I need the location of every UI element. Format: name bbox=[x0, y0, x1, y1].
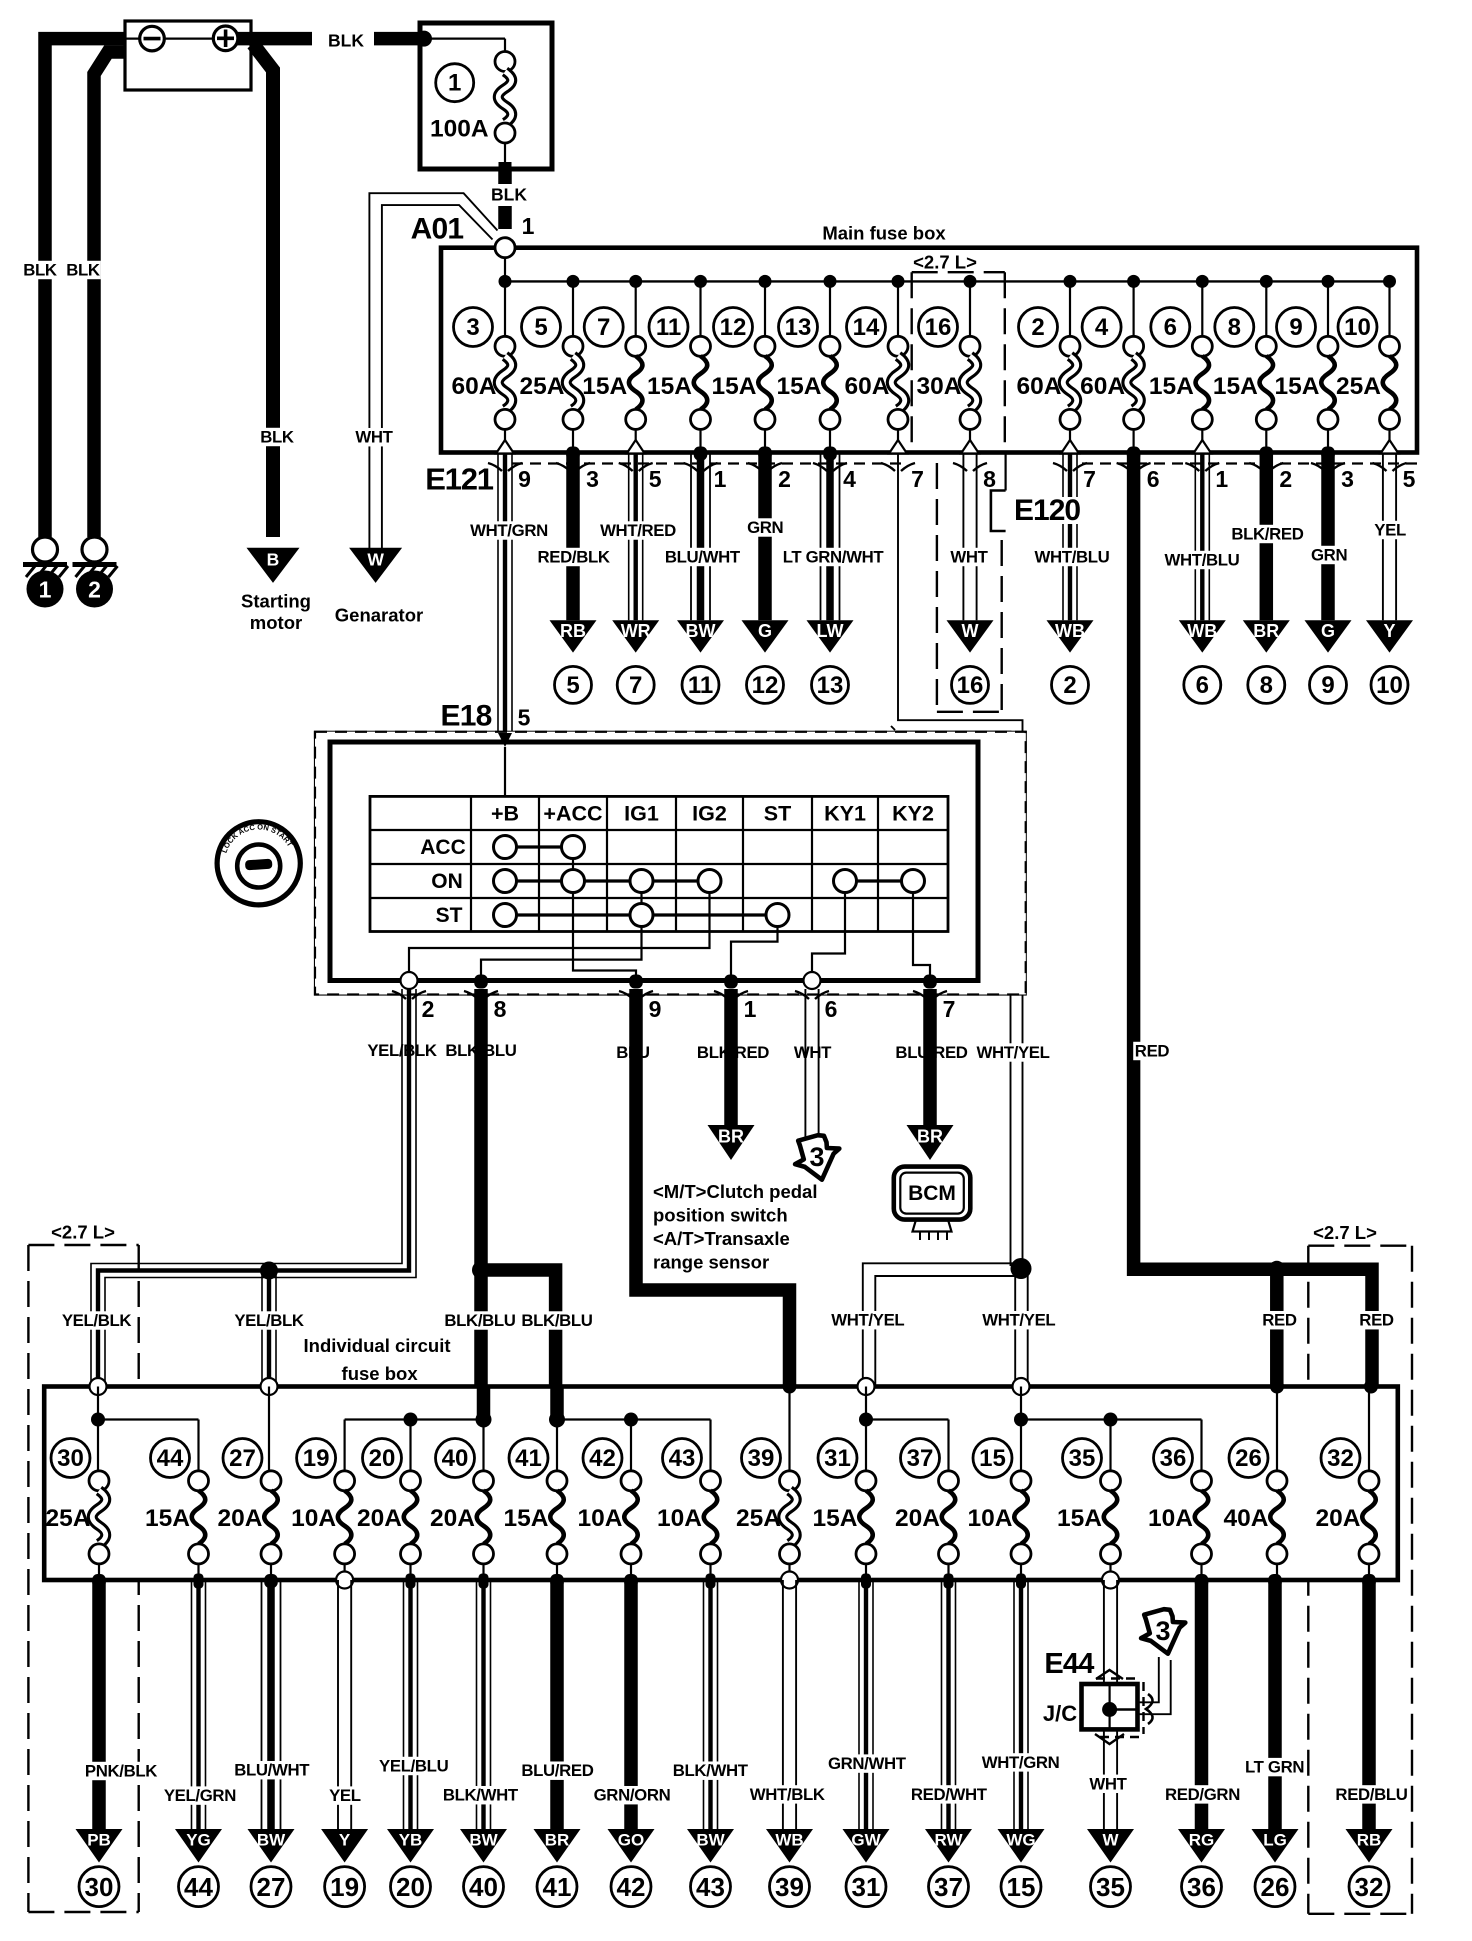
svg-text:E18: E18 bbox=[441, 700, 492, 733]
svg-text:9: 9 bbox=[1321, 672, 1334, 699]
svg-text:41: 41 bbox=[515, 1445, 542, 1472]
svg-text:BR: BR bbox=[1253, 621, 1279, 641]
svg-text:41: 41 bbox=[543, 1872, 572, 1902]
svg-text:BLK/RED: BLK/RED bbox=[1231, 525, 1303, 544]
svg-text:60A: 60A bbox=[452, 373, 497, 400]
svg-text:WHT/BLU: WHT/BLU bbox=[1035, 548, 1110, 567]
svg-text:7: 7 bbox=[911, 466, 924, 492]
svg-text:Individual circuit: Individual circuit bbox=[304, 1335, 451, 1356]
svg-text:15A: 15A bbox=[1275, 373, 1320, 400]
svg-text:Genarator: Genarator bbox=[335, 605, 423, 626]
svg-text:BLK/BLU: BLK/BLU bbox=[521, 1311, 592, 1330]
svg-text:ST: ST bbox=[436, 904, 463, 927]
svg-text:10A: 10A bbox=[578, 1505, 623, 1532]
svg-text:BLK: BLK bbox=[260, 428, 294, 447]
svg-text:G: G bbox=[1321, 621, 1335, 641]
svg-text:26: 26 bbox=[1261, 1872, 1290, 1902]
svg-text:3: 3 bbox=[1155, 1616, 1170, 1646]
svg-text:GRN: GRN bbox=[747, 518, 783, 537]
svg-text:8: 8 bbox=[494, 996, 507, 1022]
svg-text:20A: 20A bbox=[895, 1505, 940, 1532]
svg-text:15A: 15A bbox=[777, 373, 822, 400]
svg-text:15A: 15A bbox=[813, 1505, 858, 1532]
svg-text:2: 2 bbox=[422, 996, 435, 1022]
svg-text:8: 8 bbox=[1228, 314, 1241, 341]
svg-text:25A: 25A bbox=[1336, 373, 1381, 400]
svg-text:25A: 25A bbox=[520, 373, 565, 400]
svg-text:WHT/YEL: WHT/YEL bbox=[976, 1043, 1049, 1062]
svg-text:25A: 25A bbox=[46, 1505, 91, 1532]
svg-text:RED/GRN: RED/GRN bbox=[1165, 1785, 1240, 1804]
svg-text:44: 44 bbox=[184, 1872, 213, 1902]
svg-text:39: 39 bbox=[748, 1445, 775, 1472]
svg-text:8: 8 bbox=[1260, 672, 1273, 699]
svg-text:31: 31 bbox=[824, 1445, 851, 1472]
svg-text:60A: 60A bbox=[845, 373, 890, 400]
svg-text:KY2: KY2 bbox=[892, 802, 934, 826]
svg-text:19: 19 bbox=[330, 1872, 359, 1902]
svg-text:LT GRN/WHT: LT GRN/WHT bbox=[783, 548, 885, 567]
svg-text:<2.7 L>: <2.7 L> bbox=[51, 1222, 115, 1243]
svg-text:2: 2 bbox=[1279, 466, 1292, 492]
svg-text:LG: LG bbox=[1263, 1831, 1287, 1850]
svg-text:BLU/WHT: BLU/WHT bbox=[665, 548, 741, 567]
svg-text:2: 2 bbox=[1063, 672, 1076, 699]
svg-text:6: 6 bbox=[1147, 466, 1160, 492]
svg-text:PNK/BLK: PNK/BLK bbox=[85, 1762, 157, 1781]
svg-text:11: 11 bbox=[688, 672, 713, 699]
svg-text:7: 7 bbox=[1083, 466, 1096, 492]
svg-text:ST: ST bbox=[764, 802, 791, 826]
svg-text:36: 36 bbox=[1187, 1872, 1216, 1902]
svg-text:3: 3 bbox=[1341, 466, 1354, 492]
svg-text:WHT/RED: WHT/RED bbox=[600, 521, 676, 540]
svg-text:10: 10 bbox=[1376, 672, 1403, 699]
svg-text:B: B bbox=[267, 549, 280, 569]
svg-text:G: G bbox=[758, 621, 772, 641]
svg-text:5: 5 bbox=[566, 672, 579, 699]
svg-text:1: 1 bbox=[714, 466, 727, 492]
svg-text:2: 2 bbox=[778, 466, 791, 492]
svg-text:BR: BR bbox=[718, 1127, 744, 1147]
svg-text:43: 43 bbox=[669, 1445, 696, 1472]
svg-text:WB: WB bbox=[1055, 621, 1085, 641]
svg-text:10A: 10A bbox=[1148, 1505, 1193, 1532]
svg-text:BLK: BLK bbox=[23, 261, 57, 280]
svg-text:15A: 15A bbox=[145, 1505, 190, 1532]
svg-text:32: 32 bbox=[1355, 1872, 1384, 1902]
svg-text:WHT: WHT bbox=[794, 1043, 832, 1062]
svg-text:GRN: GRN bbox=[1311, 546, 1347, 565]
svg-text:2: 2 bbox=[1031, 314, 1044, 341]
svg-text:WHT: WHT bbox=[355, 428, 393, 447]
svg-text:J/C: J/C bbox=[1043, 1701, 1077, 1726]
svg-text:BLK/WHT: BLK/WHT bbox=[443, 1786, 519, 1805]
svg-text:RG: RG bbox=[1189, 1831, 1215, 1850]
svg-text:WB: WB bbox=[1187, 621, 1217, 641]
svg-text:YEL: YEL bbox=[1374, 521, 1406, 540]
svg-text:40: 40 bbox=[469, 1872, 498, 1902]
svg-text:40: 40 bbox=[442, 1445, 469, 1472]
svg-text:19: 19 bbox=[303, 1445, 330, 1472]
svg-text:YB: YB bbox=[399, 1831, 423, 1850]
svg-text:+B: +B bbox=[491, 802, 519, 826]
svg-text:RED/BLK: RED/BLK bbox=[538, 548, 610, 567]
svg-text:43: 43 bbox=[696, 1872, 725, 1902]
svg-text:GRN/ORN: GRN/ORN bbox=[594, 1786, 671, 1805]
svg-text:15A: 15A bbox=[1149, 373, 1194, 400]
svg-text:15A: 15A bbox=[647, 373, 692, 400]
svg-text:30: 30 bbox=[57, 1445, 84, 1472]
svg-text:5: 5 bbox=[649, 466, 662, 492]
svg-text:1: 1 bbox=[448, 70, 461, 97]
svg-text:5: 5 bbox=[1403, 466, 1416, 492]
svg-text:6: 6 bbox=[825, 996, 838, 1022]
svg-text:+ACC: +ACC bbox=[543, 802, 602, 826]
svg-text:36: 36 bbox=[1160, 1445, 1187, 1472]
svg-text:10A: 10A bbox=[657, 1505, 702, 1532]
svg-text:1: 1 bbox=[1215, 466, 1228, 492]
svg-text:15: 15 bbox=[1007, 1872, 1036, 1902]
svg-text:32: 32 bbox=[1327, 1445, 1354, 1472]
svg-text:4: 4 bbox=[843, 466, 856, 492]
svg-text:16: 16 bbox=[925, 314, 952, 341]
svg-text:42: 42 bbox=[617, 1872, 646, 1902]
svg-text:range sensor: range sensor bbox=[653, 1251, 769, 1272]
svg-text:35: 35 bbox=[1069, 1445, 1096, 1472]
svg-text:LW: LW bbox=[817, 621, 844, 641]
svg-text:A01: A01 bbox=[411, 213, 464, 246]
svg-text:LT GRN: LT GRN bbox=[1245, 1758, 1304, 1777]
svg-text:13: 13 bbox=[785, 314, 812, 341]
svg-text:39: 39 bbox=[775, 1872, 804, 1902]
svg-text:8: 8 bbox=[983, 466, 996, 492]
svg-text:16: 16 bbox=[957, 672, 984, 699]
svg-text:RED/WHT: RED/WHT bbox=[911, 1785, 988, 1804]
svg-text:Y: Y bbox=[339, 1831, 351, 1850]
svg-text:7: 7 bbox=[597, 314, 610, 341]
svg-text:5: 5 bbox=[518, 705, 531, 731]
svg-text:100A: 100A bbox=[430, 116, 489, 143]
svg-text:15A: 15A bbox=[1213, 373, 1258, 400]
svg-text:WHT/GRN: WHT/GRN bbox=[982, 1753, 1060, 1772]
svg-text:3: 3 bbox=[809, 1142, 824, 1172]
svg-text:20: 20 bbox=[369, 1445, 396, 1472]
svg-text:<2.7 L>: <2.7 L> bbox=[1313, 1222, 1377, 1243]
svg-text:20A: 20A bbox=[1316, 1505, 1361, 1532]
svg-text:GO: GO bbox=[618, 1831, 644, 1850]
svg-text:YEL/GRN: YEL/GRN bbox=[164, 1786, 236, 1805]
svg-text:27: 27 bbox=[257, 1872, 286, 1902]
svg-text:15A: 15A bbox=[504, 1505, 549, 1532]
svg-text:IG1: IG1 bbox=[624, 802, 659, 826]
svg-text:PB: PB bbox=[87, 1831, 111, 1850]
svg-text:ACC: ACC bbox=[420, 836, 466, 859]
svg-text:BLU/WHT: BLU/WHT bbox=[234, 1761, 310, 1780]
svg-text:<2.7 L>: <2.7 L> bbox=[913, 252, 977, 273]
svg-text:RED: RED bbox=[1262, 1311, 1297, 1330]
svg-text:10A: 10A bbox=[291, 1505, 336, 1532]
svg-text:BW: BW bbox=[686, 621, 716, 641]
svg-text:WB: WB bbox=[775, 1831, 803, 1850]
svg-text:7: 7 bbox=[629, 672, 642, 699]
svg-text:20A: 20A bbox=[430, 1505, 475, 1532]
svg-text:YEL/BLK: YEL/BLK bbox=[234, 1311, 304, 1330]
svg-text:W: W bbox=[962, 621, 979, 641]
svg-text:15A: 15A bbox=[712, 373, 757, 400]
svg-text:10A: 10A bbox=[968, 1505, 1013, 1532]
svg-text:1: 1 bbox=[744, 996, 757, 1022]
svg-text:44: 44 bbox=[157, 1445, 184, 1472]
svg-text:RW: RW bbox=[934, 1831, 963, 1850]
svg-text:Starting: Starting bbox=[241, 591, 311, 612]
svg-text:YEL: YEL bbox=[329, 1786, 361, 1805]
svg-text:BR: BR bbox=[545, 1831, 570, 1850]
svg-text:9: 9 bbox=[518, 466, 531, 492]
svg-text:WHT/YEL: WHT/YEL bbox=[982, 1311, 1055, 1330]
svg-text:YEL/BLK: YEL/BLK bbox=[62, 1311, 132, 1330]
svg-text:E120: E120 bbox=[1014, 494, 1080, 527]
svg-text:15: 15 bbox=[979, 1445, 1006, 1472]
svg-text:5: 5 bbox=[534, 314, 547, 341]
svg-text:RED: RED bbox=[1359, 1311, 1394, 1330]
svg-text:WHT/BLK: WHT/BLK bbox=[750, 1785, 825, 1804]
svg-text:20A: 20A bbox=[357, 1505, 402, 1532]
svg-text:42: 42 bbox=[589, 1445, 616, 1472]
svg-text:WG: WG bbox=[1006, 1831, 1035, 1850]
svg-text:3: 3 bbox=[466, 314, 479, 341]
svg-text:YEL/BLU: YEL/BLU bbox=[379, 1757, 449, 1776]
svg-text:WHT/GRN: WHT/GRN bbox=[470, 521, 548, 540]
svg-text:GRN/WHT: GRN/WHT bbox=[828, 1754, 907, 1773]
svg-text:31: 31 bbox=[852, 1872, 881, 1902]
svg-text:60A: 60A bbox=[1017, 373, 1062, 400]
svg-text:20: 20 bbox=[396, 1872, 425, 1902]
svg-text:WHT/BLU: WHT/BLU bbox=[1165, 551, 1240, 570]
svg-text:Y: Y bbox=[1383, 621, 1395, 641]
svg-text:BLK: BLK bbox=[328, 31, 364, 51]
svg-text:E44: E44 bbox=[1044, 1648, 1094, 1680]
svg-text:position switch: position switch bbox=[653, 1205, 788, 1226]
svg-text:W: W bbox=[367, 549, 384, 569]
svg-text:RED/BLU: RED/BLU bbox=[1335, 1785, 1407, 1804]
svg-text:1: 1 bbox=[39, 577, 52, 603]
svg-text:KY1: KY1 bbox=[824, 802, 866, 826]
svg-text:37: 37 bbox=[907, 1445, 934, 1472]
svg-text:11: 11 bbox=[656, 314, 681, 341]
svg-text:25A: 25A bbox=[736, 1505, 781, 1532]
svg-text:60A: 60A bbox=[1080, 373, 1125, 400]
svg-text:13: 13 bbox=[817, 672, 844, 699]
svg-text:10: 10 bbox=[1344, 314, 1371, 341]
svg-text:BW: BW bbox=[696, 1831, 725, 1850]
svg-text:BCM: BCM bbox=[908, 1182, 956, 1205]
svg-text:3: 3 bbox=[586, 466, 599, 492]
svg-text:YG: YG bbox=[186, 1831, 211, 1850]
svg-text:ON: ON bbox=[431, 870, 463, 893]
svg-text:BR: BR bbox=[917, 1127, 943, 1147]
svg-text:6: 6 bbox=[1164, 314, 1177, 341]
svg-text:RB: RB bbox=[1357, 1831, 1382, 1850]
svg-text:12: 12 bbox=[720, 314, 747, 341]
svg-text:BW: BW bbox=[469, 1831, 498, 1850]
svg-text:IG2: IG2 bbox=[692, 802, 727, 826]
svg-text:4: 4 bbox=[1095, 314, 1109, 341]
svg-text:BLK: BLK bbox=[66, 261, 100, 280]
svg-text:BLU/RED: BLU/RED bbox=[521, 1761, 593, 1780]
svg-text:2: 2 bbox=[88, 577, 101, 603]
svg-text:WHT/YEL: WHT/YEL bbox=[831, 1311, 904, 1330]
svg-text:BLK/WHT: BLK/WHT bbox=[673, 1761, 749, 1780]
svg-text:E121: E121 bbox=[425, 462, 494, 497]
svg-text:14: 14 bbox=[853, 314, 880, 341]
svg-text:RED: RED bbox=[1135, 1042, 1170, 1061]
svg-text:RB: RB bbox=[560, 621, 586, 641]
svg-text:fuse box: fuse box bbox=[342, 1363, 419, 1384]
svg-text:WHT: WHT bbox=[1089, 1774, 1127, 1793]
svg-text:1: 1 bbox=[522, 213, 535, 239]
svg-text:15A: 15A bbox=[1057, 1505, 1102, 1532]
svg-text:12: 12 bbox=[752, 672, 779, 699]
svg-text:27: 27 bbox=[229, 1445, 256, 1472]
svg-text:<M/T>Clutch pedal: <M/T>Clutch pedal bbox=[653, 1181, 817, 1202]
svg-text:15A: 15A bbox=[582, 373, 627, 400]
svg-text:BLK: BLK bbox=[491, 185, 527, 205]
svg-text:40A: 40A bbox=[1224, 1505, 1269, 1532]
svg-text:WHT: WHT bbox=[950, 548, 988, 567]
svg-text:<A/T>Transaxle: <A/T>Transaxle bbox=[653, 1228, 790, 1249]
svg-text:9: 9 bbox=[1289, 314, 1302, 341]
svg-text:WR: WR bbox=[621, 621, 651, 641]
svg-text:30A: 30A bbox=[917, 373, 962, 400]
svg-text:W: W bbox=[1102, 1831, 1119, 1850]
svg-text:BW: BW bbox=[257, 1831, 286, 1850]
svg-text:motor: motor bbox=[250, 612, 302, 633]
svg-text:35: 35 bbox=[1096, 1872, 1125, 1902]
svg-text:30: 30 bbox=[85, 1872, 114, 1902]
svg-text:6: 6 bbox=[1196, 672, 1209, 699]
svg-text:9: 9 bbox=[649, 996, 662, 1022]
svg-text:GW: GW bbox=[851, 1831, 881, 1850]
svg-text:BLK/BLU: BLK/BLU bbox=[444, 1311, 515, 1330]
svg-text:Main fuse box: Main fuse box bbox=[822, 222, 946, 243]
svg-text:20A: 20A bbox=[218, 1505, 263, 1532]
svg-text:7: 7 bbox=[943, 996, 956, 1022]
svg-text:26: 26 bbox=[1235, 1445, 1262, 1472]
svg-text:37: 37 bbox=[934, 1872, 963, 1902]
